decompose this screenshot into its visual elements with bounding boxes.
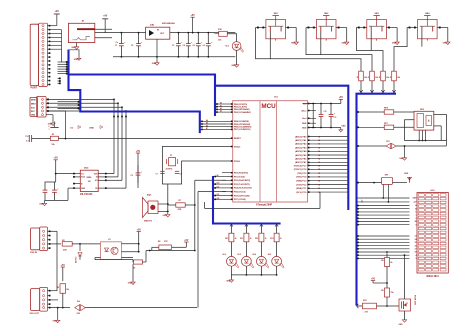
svg-text:(TDO) PC4: (TDO) PC4 <box>296 176 307 179</box>
svg-text:3964A 38x4: 3964A 38x4 <box>426 275 439 278</box>
svg-text:KR142EH5A: KR142EH5A <box>162 22 175 25</box>
svg-text:PB2 (INT2/AIN0): PB2 (INT2/AIN0) <box>234 108 250 111</box>
svg-text:(TOSC2) PC7: (TOSC2) PC7 <box>294 165 308 167</box>
svg-text:MCU: MCU <box>261 103 276 110</box>
svg-text:R9: R9 <box>381 290 383 292</box>
svg-text:C4: C4 <box>183 44 185 47</box>
svg-text:3: 3 <box>416 258 417 260</box>
svg-text:10k: 10k <box>364 77 367 79</box>
svg-text:C9: C9 <box>131 175 133 177</box>
svg-text:PB5 (ICP3/MOSI): PB5 (ICP3/MOSI) <box>234 124 251 126</box>
svg-text:+5V: +5V <box>61 265 66 267</box>
svg-text:HL4: HL4 <box>252 253 255 256</box>
svg-text:+5V: +5V <box>136 151 141 153</box>
svg-text:GND: GND <box>163 215 168 217</box>
svg-text:(ADC7) PA7: (ADC7) PA7 <box>295 161 307 164</box>
svg-text:GND: GND <box>413 198 418 200</box>
svg-text:C7: C7 <box>156 174 158 176</box>
svg-text:DA1: DA1 <box>150 23 155 26</box>
svg-text:GND: GND <box>31 115 36 117</box>
svg-text:GND: GND <box>291 43 296 45</box>
svg-text:PB1 (CLK/T1): PB1 (CLK/T1) <box>234 107 247 109</box>
svg-text:+9V: +9V <box>55 11 60 13</box>
svg-text:1: 1 <box>416 215 417 217</box>
svg-text:+5V: +5V <box>371 278 376 280</box>
svg-text:XTAL2: XTAL2 <box>234 145 241 148</box>
svg-text:GND: GND <box>342 125 347 127</box>
svg-text:C3: C3 <box>172 45 174 47</box>
svg-text:HL1: HL1 <box>225 46 229 48</box>
svg-text:C6: C6 <box>203 45 205 47</box>
svg-text:18: 18 <box>415 252 417 254</box>
svg-text:0: 0 <box>49 126 50 128</box>
svg-text:x: x <box>49 129 50 131</box>
svg-text:17: 17 <box>415 249 417 251</box>
svg-text:PB4 (OC0B/SS): PB4 (OC0B/SS) <box>234 120 249 123</box>
svg-text:10k: 10k <box>397 77 400 79</box>
svg-text:R5: R5 <box>57 287 59 289</box>
svg-text:Hold: Hold <box>81 177 85 179</box>
svg-text:DD2: DD2 <box>84 168 89 170</box>
svg-text:75k: 75k <box>391 292 394 294</box>
svg-text:1k: 1k <box>265 238 267 240</box>
svg-text:XS3 OUT: XS3 OUT <box>30 313 40 315</box>
svg-text:PD6 (ICP/OC2B): PD6 (ICP/OC2B) <box>234 195 250 197</box>
svg-text:HL5: HL5 <box>268 254 271 256</box>
svg-text:GND: GND <box>231 65 236 67</box>
svg-text:GND: GND <box>89 128 94 130</box>
svg-text:(TMS) PC3: (TMS) PC3 <box>296 181 307 183</box>
svg-text:PD2 (RxD1/INT0): PD2 (RxD1/INT0) <box>234 180 250 182</box>
svg-text:(ADC1) PA1: (ADC1) PA1 <box>295 139 307 142</box>
svg-text:C2: C2 <box>131 45 133 47</box>
svg-text:HL2: HL2 <box>222 254 225 256</box>
svg-text:GND: GND <box>302 127 307 129</box>
svg-text:(ADC0) PA0: (ADC0) PA0 <box>295 135 307 138</box>
svg-text:GND: GND <box>399 158 404 160</box>
svg-text:R6: R6 <box>158 241 160 243</box>
svg-text:BQ1: BQ1 <box>147 194 152 196</box>
svg-text:2: 2 <box>416 218 417 220</box>
svg-text:SMD-P6: SMD-P6 <box>144 220 153 222</box>
svg-text:10k: 10k <box>386 77 389 79</box>
svg-text:(TCK) PC2: (TCK) PC2 <box>296 184 307 186</box>
svg-text:PB3 (OC0A/AIN1): PB3 (OC0A/AIN1) <box>234 111 251 114</box>
svg-text:GND: GND <box>81 188 86 190</box>
svg-text:PB0 (XCK/T0): PB0 (XCK/T0) <box>234 104 248 106</box>
svg-text:ATmega1284P: ATmega1284P <box>256 203 273 206</box>
svg-text:+5V: +5V <box>137 229 142 231</box>
svg-text:(ADC5) PA5: (ADC5) PA5 <box>295 154 307 157</box>
svg-text:+5V: +5V <box>184 240 189 242</box>
svg-text:+5V: +5V <box>339 97 344 99</box>
svg-text:C8: C8 <box>180 174 182 176</box>
svg-text:16 MHz: 16 MHz <box>166 169 173 171</box>
svg-text:47R: 47R <box>178 208 182 211</box>
svg-text:XTAL1: XTAL1 <box>234 160 241 163</box>
svg-text:(ADC2) PA2: (ADC2) PA2 <box>295 143 307 146</box>
svg-text:GND: GND <box>443 43 448 45</box>
svg-text:PD7 (OC2A): PD7 (OC2A) <box>234 198 246 201</box>
svg-text:(SCL) PC0: (SCL) PC0 <box>296 192 307 194</box>
svg-text:XS3 IN: XS3 IN <box>30 252 37 254</box>
svg-text:C10: C10 <box>324 111 327 113</box>
svg-text:PD4 (XCK1/OC1B): PD4 (XCK1/OC1B) <box>234 187 252 190</box>
svg-text:10k: 10k <box>375 77 378 79</box>
svg-text:C5: C5 <box>193 45 195 47</box>
svg-text:1k: 1k <box>280 238 282 240</box>
svg-text:(ADC3) PA3: (ADC3) PA3 <box>295 146 307 149</box>
svg-text:22R: 22R <box>63 249 67 251</box>
svg-text:(SDA) PC1: (SDA) PC1 <box>296 187 307 190</box>
svg-text:PORT: PORT <box>31 87 38 90</box>
svg-text:PD1 (TxD0): PD1 (TxD0) <box>234 176 245 178</box>
svg-text:15: 15 <box>415 242 417 244</box>
svg-text:1M: 1M <box>88 181 91 183</box>
svg-text:+9V: +9V <box>103 16 108 18</box>
svg-text:23LCV1024: 23LCV1024 <box>80 193 93 196</box>
svg-text:&: & <box>428 120 430 123</box>
svg-text:0.1: 0.1 <box>26 141 29 143</box>
svg-text:1k: 1k <box>250 238 252 240</box>
svg-text:PB6 (OC3A/MISO): PB6 (OC3A/MISO) <box>234 126 252 129</box>
svg-text:GND: GND <box>128 283 133 285</box>
svg-text:(ADC4) PA4: (ADC4) PA4 <box>295 150 307 153</box>
svg-text:AVcc: AVcc <box>301 109 307 112</box>
svg-text:GND: GND <box>302 123 307 125</box>
svg-text:GND: GND <box>392 43 397 45</box>
svg-text:MOSI: MOSI <box>31 99 36 101</box>
svg-text:+5V: +5V <box>54 158 59 160</box>
svg-text:(ADC6) PA6: (ADC6) PA6 <box>295 158 307 161</box>
svg-text:10k: 10k <box>66 289 69 291</box>
svg-text:GND: GND <box>74 59 79 61</box>
svg-text:R10: R10 <box>225 238 228 240</box>
svg-text:GND: GND <box>53 321 58 323</box>
svg-text:PD0 (RxD0/T3): PD0 (RxD0/T3) <box>234 173 248 175</box>
svg-text:GND: GND <box>39 204 44 206</box>
svg-text:(TDI) PC5: (TDI) PC5 <box>297 173 307 175</box>
svg-text:C1: C1 <box>115 45 117 47</box>
svg-text:HL3: HL3 <box>237 254 240 256</box>
svg-text:GND: GND <box>342 43 347 45</box>
svg-text:16: 16 <box>415 245 417 247</box>
svg-text:BZV55C: BZV55C <box>76 256 78 263</box>
svg-text:R11: R11 <box>240 238 243 240</box>
svg-text:GND: GND <box>226 280 231 282</box>
svg-text:1k: 1k <box>235 238 237 240</box>
svg-text:(TOSC1) PC6: (TOSC1) PC6 <box>294 169 308 171</box>
svg-text:MISO: MISO <box>31 103 36 105</box>
svg-text:IRLML6402: IRLML6402 <box>414 295 417 305</box>
svg-text:4: 4 <box>416 254 417 257</box>
svg-text:GND: GND <box>152 63 157 65</box>
svg-text:GND: GND <box>404 173 409 175</box>
svg-text:C11: C11 <box>334 117 337 119</box>
svg-text:MEM: MEM <box>87 177 92 179</box>
svg-text:Q1: Q1 <box>406 303 408 305</box>
svg-text:RESET: RESET <box>234 138 242 140</box>
svg-text:Vcc: Vcc <box>81 173 84 175</box>
svg-text:PB7 (OC3B/SCK): PB7 (OC3B/SCK) <box>234 129 251 131</box>
svg-text:C12: C12 <box>25 136 28 138</box>
svg-text:9k: 9k <box>391 262 393 264</box>
svg-text:+5V: +5V <box>191 15 196 17</box>
svg-text:CO: CO <box>70 128 74 130</box>
svg-text:13: 13 <box>415 236 417 238</box>
svg-text:9: 9 <box>416 224 417 226</box>
svg-text:R13: R13 <box>270 238 273 240</box>
svg-text:Aref: Aref <box>302 117 306 120</box>
svg-text:R8: R8 <box>381 260 383 262</box>
svg-text:GND: GND <box>71 47 76 49</box>
svg-text:R17: R17 <box>386 141 389 143</box>
svg-text:R12: R12 <box>255 238 258 240</box>
svg-text:PD3 (TxD1/INT1): PD3 (TxD1/INT1) <box>234 184 250 186</box>
svg-text:GND: GND <box>399 324 404 326</box>
svg-text:PD5 (OC1A): PD5 (OC1A) <box>234 191 246 194</box>
svg-text:38: 38 <box>415 221 417 223</box>
svg-text:14: 14 <box>415 238 417 241</box>
